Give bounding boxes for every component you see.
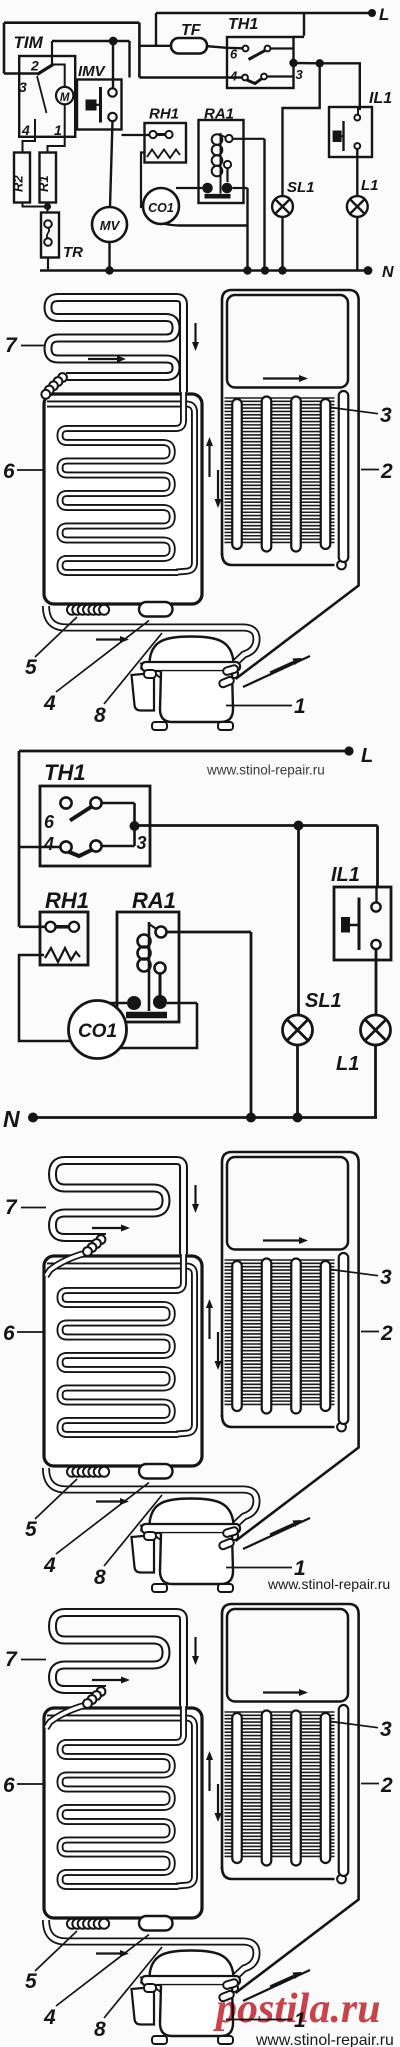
svg-text:4: 4 — [21, 122, 30, 138]
svg-text:TH1: TH1 — [228, 16, 258, 33]
svg-text:TIM: TIM — [14, 33, 44, 52]
svg-text:L: L — [379, 5, 389, 24]
svg-text:RA1: RA1 — [132, 888, 176, 913]
svg-text:7: 7 — [5, 334, 18, 357]
svg-text:6: 6 — [230, 47, 238, 62]
svg-text:MV: MV — [100, 218, 121, 233]
svg-text:3: 3 — [19, 79, 27, 95]
svg-text:6: 6 — [3, 460, 15, 483]
svg-text:3: 3 — [296, 67, 304, 82]
svg-text:TR: TR — [63, 244, 83, 261]
svg-text:www.stinol-repair.ru: www.stinol-repair.ru — [267, 1576, 390, 1592]
svg-text:5: 5 — [25, 656, 37, 679]
svg-text:L: L — [361, 745, 373, 767]
svg-text:IL1: IL1 — [369, 90, 392, 107]
svg-text:RH1: RH1 — [45, 888, 89, 913]
svg-text:8: 8 — [94, 704, 106, 727]
svg-text:RH1: RH1 — [149, 106, 179, 123]
svg-text:TF: TF — [181, 22, 202, 39]
svg-text:postila.ru: postila.ru — [213, 1986, 381, 2032]
svg-text:TH1: TH1 — [44, 760, 86, 785]
svg-text:R2: R2 — [11, 175, 26, 192]
svg-text:2: 2 — [30, 58, 39, 74]
svg-text:IL1: IL1 — [331, 864, 360, 886]
svg-text:6: 6 — [44, 812, 55, 832]
svg-text:CO1: CO1 — [78, 1021, 117, 1042]
svg-text:IMV: IMV — [78, 63, 107, 80]
svg-text:www.stinol-repair.ru: www.stinol-repair.ru — [255, 2032, 394, 2047]
svg-text:N: N — [382, 264, 394, 281]
svg-text:L1: L1 — [361, 177, 379, 194]
svg-text:4: 4 — [43, 834, 54, 854]
svg-text:CO1: CO1 — [148, 201, 174, 215]
svg-text:1: 1 — [54, 122, 62, 138]
svg-text:2: 2 — [380, 460, 393, 483]
svg-text:4: 4 — [229, 69, 238, 84]
svg-text:SL1: SL1 — [287, 179, 315, 196]
svg-text:4: 4 — [43, 692, 56, 715]
svg-text:SL1: SL1 — [305, 990, 342, 1012]
svg-text:3: 3 — [380, 404, 392, 427]
svg-text:L1: L1 — [336, 1053, 359, 1075]
svg-text:R1: R1 — [36, 175, 51, 192]
svg-text:N: N — [3, 1106, 20, 1132]
svg-text:www.stinol-repair.ru: www.stinol-repair.ru — [206, 763, 325, 778]
svg-text:3: 3 — [137, 833, 147, 853]
svg-text:M: M — [60, 92, 70, 104]
svg-text:1: 1 — [294, 695, 306, 718]
